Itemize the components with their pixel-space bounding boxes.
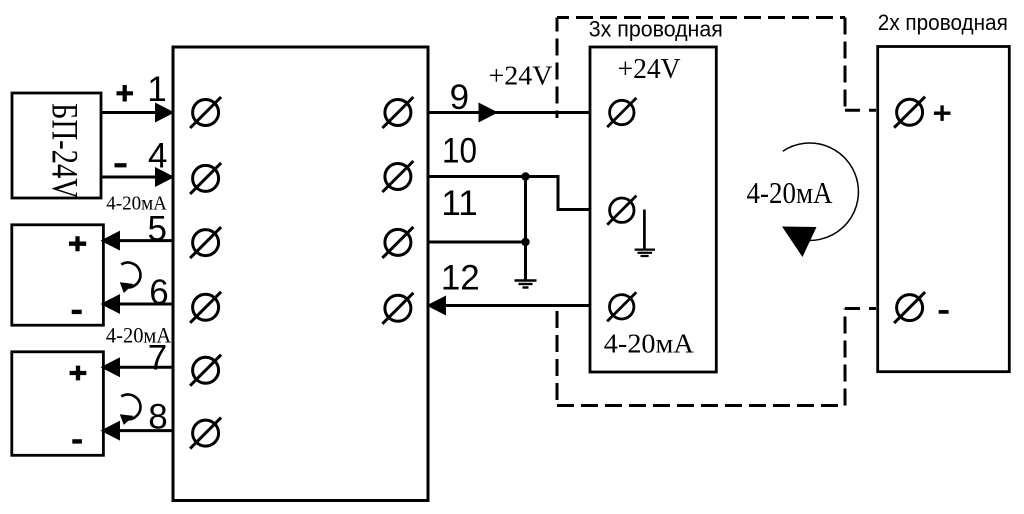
- label - (2-wire): [939, 310, 949, 314]
- ground symbol: [515, 281, 537, 288]
- receiver box B: [12, 352, 104, 456]
- svg-text:4: 4: [148, 136, 167, 175]
- wire 10 (terminal 10 to transmitter middle): [428, 177, 590, 210]
- wire 5 (terminal 5 to receiver A +): [103, 239, 173, 242]
- terminal 4: [190, 163, 221, 194]
- arrowhead wire 4: [155, 167, 175, 187]
- junction dot (wire 10): [521, 172, 529, 180]
- transmitter ground symbol: [635, 250, 655, 256]
- arrowhead wire 6: [101, 294, 121, 314]
- svg-text:2х проводная: 2х проводная: [878, 10, 1008, 35]
- label - (receiver B): [72, 439, 82, 443]
- arrowhead wire 7: [101, 357, 121, 377]
- dashed boundary bottom edge: [557, 404, 845, 407]
- loop arrow (current direction, receiver B): [120, 394, 141, 424]
- svg-text:9: 9: [450, 78, 469, 117]
- terminal 9: [382, 97, 413, 128]
- label - (wire 4): [115, 163, 127, 167]
- current loop arrowhead: [782, 227, 817, 258]
- svg-text:10: 10: [442, 132, 477, 171]
- terminal 10: [382, 161, 413, 192]
- svg-text:1: 1: [147, 70, 166, 109]
- terminal 12: [382, 293, 413, 324]
- svg-text:12: 12: [441, 259, 480, 298]
- wire 11 (terminal 11 to ground link): [428, 241, 526, 244]
- wire 12 (transmitter 4-20мА output to terminal 12): [428, 304, 590, 307]
- svg-text:8: 8: [148, 397, 167, 436]
- arrowhead wire 9: [479, 103, 499, 123]
- wire 1 (+ of БП-24V to terminal 1): [101, 111, 172, 114]
- 2-wire terminal -: [894, 292, 925, 323]
- label + (wire 1): [117, 85, 134, 102]
- receiver box A: [12, 225, 104, 325]
- dashed boundary right edge lower: [844, 309, 847, 406]
- 2-wire terminal +: [894, 97, 925, 128]
- dashed boundary left edge lower: [556, 311, 559, 406]
- 2-wire transmitter box: [878, 47, 1010, 372]
- wire 8 (terminal 8 to receiver B -): [103, 429, 173, 432]
- svg-text:4-20мА: 4-20мА: [747, 175, 834, 210]
- arrowhead wire 8: [101, 421, 121, 441]
- terminal 5: [190, 227, 221, 258]
- wire 7 (terminal 7 to receiver B +): [103, 366, 173, 369]
- label - (receiver A): [72, 310, 82, 314]
- main device box: [173, 47, 428, 501]
- transmitter terminal +24V: [607, 98, 636, 127]
- loop arrow (current direction, receiver A): [120, 263, 141, 293]
- svg-text:БП-24V: БП-24V: [44, 103, 85, 199]
- svg-text:11: 11: [441, 184, 477, 223]
- wire 6 (terminal 6 to receiver A -): [103, 303, 173, 306]
- transmitter terminal middle: [607, 196, 636, 225]
- arrowhead wire 5: [101, 231, 121, 251]
- svg-text:+24V: +24V: [618, 53, 681, 85]
- power supply box БП-24V: [12, 93, 101, 198]
- svg-text:+24V: +24V: [489, 61, 554, 91]
- wire 9 (terminal 9 to transmitter +24V): [428, 111, 590, 114]
- 3-wire transmitter box: [590, 47, 716, 372]
- terminal 7: [190, 355, 221, 386]
- dashed jog to 2-wire + terminal: [845, 109, 876, 112]
- svg-text:5: 5: [147, 210, 166, 249]
- terminal 1: [190, 97, 221, 128]
- wire 4 (- of БП-24V to terminal 4): [101, 176, 172, 179]
- svg-text:3х проводная: 3х проводная: [589, 17, 723, 42]
- terminal 8: [190, 418, 221, 449]
- ground link wire: [524, 177, 527, 281]
- arrowhead wire 12: [427, 296, 447, 316]
- label + (receiver A): [69, 236, 86, 251]
- arrowhead wire 1: [155, 103, 175, 123]
- label + (2-wire): [934, 105, 951, 121]
- current loop arc 4-20мА: [783, 143, 859, 240]
- dashed boundary right edge upper: [844, 18, 847, 111]
- svg-text:7: 7: [148, 339, 167, 378]
- transmitter terminal 4-20мА: [607, 292, 636, 321]
- terminal 6: [190, 292, 221, 323]
- terminal 11: [382, 227, 413, 258]
- svg-text:4-20мА: 4-20мА: [604, 328, 694, 359]
- label + (receiver B): [70, 366, 87, 381]
- dashed jog to 2-wire - terminal: [845, 307, 876, 310]
- junction dot (wire 11): [521, 238, 529, 246]
- svg-text:6: 6: [149, 273, 168, 312]
- dashed boundary left edge upper: [556, 18, 559, 119]
- dashed boundary top edge: [557, 16, 845, 19]
- transmitter ground wire: [643, 210, 646, 250]
